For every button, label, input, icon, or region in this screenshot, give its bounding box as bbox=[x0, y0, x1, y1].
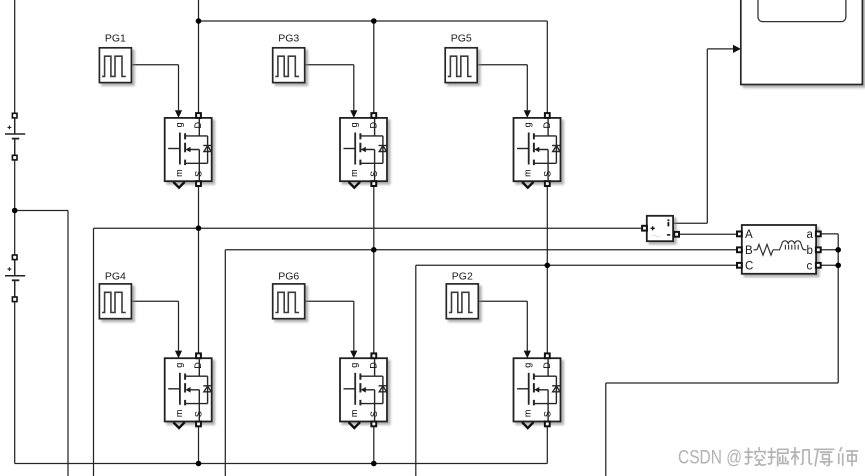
svg-text:PG6: PG6 bbox=[278, 271, 299, 283]
svg-text:PG3: PG3 bbox=[278, 33, 299, 45]
svg-text:A: A bbox=[745, 229, 753, 241]
svg-text:b: b bbox=[807, 245, 813, 257]
svg-text:PG2: PG2 bbox=[452, 271, 473, 283]
svg-text:PG4: PG4 bbox=[105, 271, 126, 283]
svg-text:PG5: PG5 bbox=[451, 33, 472, 45]
svg-text:B: B bbox=[745, 245, 753, 257]
svg-text:PG1: PG1 bbox=[105, 33, 126, 45]
svg-text:CSDN @: CSDN @ bbox=[678, 447, 742, 469]
svg-text:a: a bbox=[807, 229, 814, 241]
svg-text:C: C bbox=[745, 260, 753, 272]
svg-text:c: c bbox=[807, 260, 813, 272]
